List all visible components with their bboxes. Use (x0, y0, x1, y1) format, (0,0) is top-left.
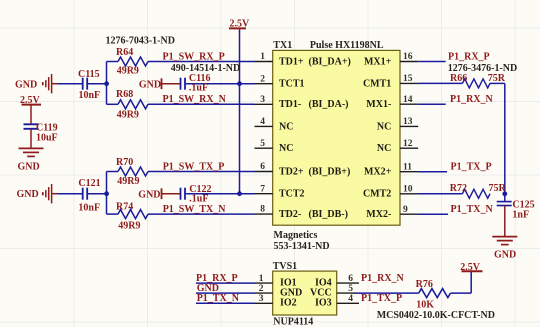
svg-text:R66: R66 (450, 73, 467, 84)
svg-text:10: 10 (403, 184, 413, 194)
svg-text:10nF: 10nF (79, 90, 101, 101)
svg-text:P1_TX_N: P1_TX_N (197, 293, 240, 304)
svg-text:.1uF: .1uF (189, 82, 208, 93)
svg-text:3: 3 (259, 294, 264, 304)
svg-text:5: 5 (348, 284, 353, 294)
svg-text:Pulse HX1198NL: Pulse HX1198NL (310, 40, 384, 51)
svg-text:NC: NC (377, 143, 391, 154)
svg-text:TD1-: TD1- (279, 99, 301, 110)
svg-text:(BI_DB+): (BI_DB+) (309, 166, 351, 177)
svg-text:MX1+: MX1+ (364, 56, 392, 67)
svg-text:49R9: 49R9 (117, 109, 139, 120)
svg-text:1276-3476-1-ND: 1276-3476-1-ND (448, 63, 517, 74)
svg-text:2.5V: 2.5V (460, 262, 481, 273)
svg-text:2.5V: 2.5V (20, 95, 41, 106)
svg-text:CMT2: CMT2 (363, 189, 391, 200)
svg-text:5: 5 (260, 139, 265, 149)
svg-text:R72: R72 (450, 183, 467, 194)
svg-text:.1uF: .1uF (189, 194, 208, 205)
svg-text:NC: NC (279, 143, 293, 154)
svg-text:1nF: 1nF (512, 210, 529, 221)
svg-text:11: 11 (403, 162, 412, 172)
svg-text:NC: NC (279, 121, 293, 132)
svg-text:15: 15 (403, 74, 413, 84)
svg-text:1276-7043-1-ND: 1276-7043-1-ND (106, 36, 175, 47)
svg-text:TVS1: TVS1 (273, 261, 297, 272)
svg-text:Magnetics: Magnetics (274, 230, 318, 241)
svg-text:MX1-: MX1- (366, 99, 391, 110)
svg-text:75R: 75R (489, 183, 507, 194)
svg-text:GND: GND (138, 189, 160, 200)
svg-text:R68: R68 (116, 89, 133, 100)
svg-text:GND: GND (18, 162, 40, 173)
svg-text:6: 6 (348, 274, 353, 284)
svg-text:NUP4114: NUP4114 (273, 317, 313, 327)
svg-text:12: 12 (403, 139, 413, 149)
svg-text:TCT1: TCT1 (279, 79, 305, 90)
svg-text:13: 13 (403, 117, 413, 127)
svg-text:R76: R76 (416, 279, 433, 290)
svg-text:NC: NC (377, 121, 391, 132)
svg-text:C121: C121 (78, 178, 100, 189)
svg-text:P1_TX_P: P1_TX_P (451, 162, 492, 173)
svg-text:(BI_DB-): (BI_DB-) (309, 209, 348, 220)
svg-text:P1_SW_TX_N: P1_SW_TX_N (163, 204, 227, 215)
svg-text:1: 1 (259, 274, 264, 284)
svg-text:10K: 10K (416, 300, 434, 311)
svg-text:(BI_DA-): (BI_DA-) (309, 99, 349, 110)
svg-text:16: 16 (403, 52, 413, 62)
svg-text:TCT2: TCT2 (279, 189, 305, 200)
svg-text:2: 2 (260, 74, 265, 84)
svg-text:75R: 75R (488, 73, 506, 84)
svg-text:GND: GND (494, 250, 516, 261)
svg-text:TD1+: TD1+ (279, 56, 304, 67)
svg-text:7: 7 (260, 184, 265, 194)
svg-text:14: 14 (403, 95, 413, 105)
svg-text:C115: C115 (78, 69, 100, 80)
svg-text:TD2-: TD2- (279, 209, 301, 220)
svg-text:MCS0402-10.0K-CFCT-ND: MCS0402-10.0K-CFCT-ND (377, 310, 495, 321)
svg-text:1: 1 (260, 52, 265, 62)
svg-text:P1_TX_N: P1_TX_N (451, 204, 494, 215)
svg-text:R74: R74 (116, 202, 133, 213)
svg-text:8: 8 (260, 205, 265, 215)
svg-text:GND: GND (15, 79, 37, 90)
svg-text:P1_SW_RX_N: P1_SW_RX_N (163, 94, 227, 105)
svg-text:MX2-: MX2- (366, 209, 391, 220)
svg-text:IO3: IO3 (315, 298, 332, 309)
svg-text:MX2+: MX2+ (364, 166, 392, 177)
svg-text:3: 3 (260, 95, 265, 105)
svg-text:P1_RX_P: P1_RX_P (448, 51, 490, 62)
svg-text:GND: GND (17, 189, 39, 200)
svg-text:4: 4 (260, 117, 265, 127)
svg-text:R70: R70 (116, 157, 133, 168)
svg-text:R64: R64 (116, 47, 133, 58)
svg-text:2: 2 (259, 284, 264, 294)
svg-text:IO2: IO2 (280, 298, 297, 309)
svg-text:GND: GND (139, 79, 161, 90)
svg-text:2.5V: 2.5V (230, 19, 251, 30)
svg-text:P1_SW_TX_P: P1_SW_TX_P (163, 161, 225, 172)
svg-text:TX1: TX1 (273, 40, 292, 51)
svg-text:49R9: 49R9 (117, 176, 139, 187)
svg-text:6: 6 (260, 162, 265, 172)
svg-text:10uF: 10uF (36, 132, 58, 143)
svg-text:10nF: 10nF (78, 202, 100, 213)
svg-text:553-1341-ND: 553-1341-ND (274, 241, 330, 252)
svg-text:49R9: 49R9 (117, 66, 139, 77)
svg-text:9: 9 (403, 205, 408, 215)
svg-text:P1_RX_N: P1_RX_N (450, 94, 494, 105)
svg-text:P1_SW_RX_P: P1_SW_RX_P (163, 51, 225, 62)
svg-text:490-14514-1-ND: 490-14514-1-ND (171, 63, 240, 74)
svg-text:CMT1: CMT1 (363, 79, 391, 90)
svg-text:TD2+: TD2+ (279, 166, 304, 177)
svg-text:P1_RX_N: P1_RX_N (361, 273, 405, 284)
svg-text:(BI_DA+): (BI_DA+) (309, 56, 351, 67)
svg-text:4: 4 (348, 294, 353, 304)
svg-text:49R9: 49R9 (118, 221, 140, 232)
svg-text:P1_TX_P: P1_TX_P (361, 293, 402, 304)
